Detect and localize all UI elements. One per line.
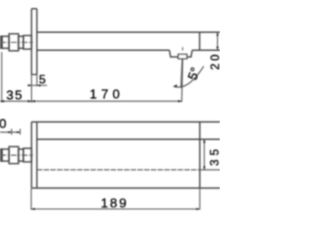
spout body bottom edge (37, 49, 220, 51)
extension line flange right (36, 75, 38, 87)
connector top: cap (1, 149, 2, 161)
body outline top (37, 121, 220, 123)
dim 35 vertical line (203, 139, 205, 170)
dim 10 ticks (12, 129, 21, 135)
connector top: collar (19, 149, 24, 161)
connector top: nut (9, 147, 19, 164)
extension line connector cap (1, 52, 3, 103)
dim 189 line (31, 208, 200, 210)
hidden line extension (200, 169, 220, 171)
hidden dashed line (37, 169, 200, 171)
svg-text:5°: 5° (185, 65, 203, 82)
wire (1, 9, 220, 75)
dim line 35/170 (0, 100, 182, 102)
dim 189 extension right (199, 188, 201, 210)
svg-text:20: 20 (210, 52, 220, 70)
arrows at flange ext (28, 100, 35, 102)
arrows dim 5 (28, 84, 41, 86)
spout body top edge (37, 31, 220, 33)
arrows dim 189 (31, 208, 200, 210)
arrows dim 35 (203, 139, 205, 170)
connector side: shank (23, 36, 31, 50)
flange top view (32, 122, 37, 188)
centerline top view (0, 154, 33, 156)
connector side: cap (1, 36, 2, 48)
dim 20: vertical line (217, 32, 219, 50)
aerator recess (169, 50, 192, 57)
connector side: collar (19, 36, 24, 48)
body outline bottom (37, 187, 220, 189)
5 degree arc (173, 66, 203, 87)
dim 10 arrows (8, 131, 20, 133)
svg-text:189: 189 (101, 195, 128, 210)
connector side: thread (2, 36, 9, 48)
connector side: nut (9, 34, 19, 51)
dim 10: line (0, 131, 20, 133)
aerator centerline tick (182, 47, 184, 50)
svg-text:10: 10 (0, 116, 7, 131)
arrow at 170 end (178, 100, 182, 102)
body right edge (199, 122, 201, 188)
arrows dim 20 (216, 32, 218, 50)
flange side view (32, 9, 37, 75)
connector top: thread (2, 149, 9, 161)
dim 189 extension left (30, 189, 32, 210)
svg-text:5: 5 (39, 73, 46, 87)
extension line from aerator (182, 59, 183, 102)
spout tip edge (199, 32, 201, 50)
connector top: shank (23, 148, 31, 162)
svg-text:35: 35 (6, 87, 23, 102)
svg-text:170: 170 (90, 87, 124, 102)
5 degree spray line (181, 59, 182, 88)
arrow at 0 (0, 100, 4, 102)
inner edge line (37, 138, 220, 140)
aerator insert (178, 54, 187, 58)
dim line 5 (28, 84, 47, 86)
svg-text:35: 35 (210, 145, 221, 166)
arc arrowhead (173, 85, 177, 87)
extension line flange left (31, 75, 33, 103)
centerline side view (0, 41, 33, 43)
